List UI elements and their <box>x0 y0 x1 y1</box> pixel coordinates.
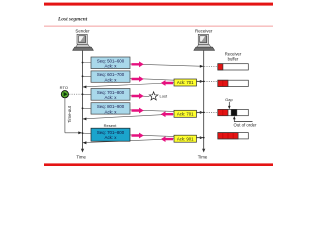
buffer1 <box>218 64 249 70</box>
svg-text:Seq: 601–700: Seq: 601–700 <box>97 72 125 77</box>
segment4 arrival arrowhead <box>200 111 204 114</box>
svg-text:Seq: 801–900: Seq: 801–900 <box>97 104 125 109</box>
ack box1 Ack 701 <box>174 79 197 86</box>
wire segment2 data line <box>83 76 204 81</box>
dotted connector to buffer3 <box>204 111 217 113</box>
bottom red bar <box>44 163 273 166</box>
svg-text:Sender: Sender <box>75 29 90 34</box>
wire ack1 line <box>83 81 204 87</box>
time-out bracket arrowhead <box>78 131 82 134</box>
junction dots on timelines <box>82 62 205 139</box>
receiver timeline arrowhead <box>202 149 205 153</box>
wire segment4 data line <box>83 108 204 112</box>
svg-text:Ack: x: Ack: x <box>105 95 118 100</box>
buffer2 <box>218 80 249 86</box>
svg-text:Ack: 701: Ack: 701 <box>177 80 194 85</box>
sender timeline <box>82 51 84 150</box>
out of order arrowhead <box>233 116 236 119</box>
svg-text:buffer: buffer <box>228 57 239 62</box>
svg-text:Ack: 701: Ack: 701 <box>177 112 194 117</box>
svg-text:Ack: x: Ack: x <box>105 64 118 69</box>
ack box2 pink arrow <box>161 111 173 117</box>
top red bar <box>44 3 273 6</box>
ack2 arrival arrowhead <box>83 118 87 121</box>
svg-text:Ack: x: Ack: x <box>105 78 118 83</box>
svg-text:Lost segment: Lost segment <box>57 17 88 23</box>
ack3 arrival arrowhead <box>83 141 87 144</box>
RTO dotted line to sender timeline <box>69 93 82 95</box>
segment2 arrival arrowhead <box>200 80 204 83</box>
svg-text:Ack: x: Ack: x <box>105 135 118 140</box>
segment box2 pink arrow <box>132 76 144 82</box>
ack box1 pink arrow <box>161 80 173 86</box>
ack box3 pink arrow <box>161 136 173 142</box>
wire ack3 line <box>83 138 204 143</box>
segment box3 pink arrow <box>132 93 144 99</box>
out of order arrow line <box>234 119 252 122</box>
lost star burst <box>149 92 158 100</box>
segment box4 Seq 801-900 <box>91 103 130 115</box>
ack box2 Ack 701 <box>174 110 197 117</box>
svg-text:Ack: x: Ack: x <box>105 109 118 114</box>
time-out bracket vertical line <box>64 98 66 133</box>
buffer4 <box>218 133 249 139</box>
RTO timer circle <box>61 91 68 98</box>
gap arrowhead <box>228 106 231 109</box>
svg-text:Gap: Gap <box>225 97 233 102</box>
resent segment box Seq 701-800 <box>91 128 130 141</box>
dotted connector to buffer2 <box>204 80 217 82</box>
svg-text:Time: Time <box>198 155 208 160</box>
dotted connector to buffer1 <box>204 65 217 67</box>
svg-text:Seq: 701–800: Seq: 701–800 <box>97 90 125 95</box>
segment box3 Seq 701-800 <box>91 89 130 101</box>
segment box1 pink arrow <box>132 61 144 67</box>
buffer3 <box>218 109 249 115</box>
segment1 arrival arrowhead <box>200 65 204 68</box>
receiver computer icon <box>194 34 215 50</box>
svg-text:Lost: Lost <box>160 94 168 99</box>
svg-text:Receiver: Receiver <box>195 29 213 34</box>
pink divider line <box>44 26 273 27</box>
resent arrival arrowhead <box>200 136 204 139</box>
segment box2 Seq 601-700 <box>91 71 130 83</box>
ack1 arrival arrowhead <box>83 86 87 89</box>
wire segment3 lost data line <box>83 94 150 96</box>
svg-text:Out of order: Out of order <box>234 122 257 127</box>
segment box4 pink arrow <box>132 108 144 114</box>
ack box3 Ack 901 <box>174 135 197 142</box>
time-out bracket horizontal arrow <box>65 132 80 134</box>
svg-text:RTO: RTO <box>60 85 68 90</box>
svg-text:Resent: Resent <box>104 123 118 128</box>
wire segment1 data line <box>83 63 204 67</box>
svg-text:Ack: 901: Ack: 901 <box>177 136 194 141</box>
wire ack2 line <box>83 112 204 119</box>
gap arrow <box>228 102 230 107</box>
receiver timeline <box>203 51 205 150</box>
sender computer icon <box>73 34 94 50</box>
segment box1 Seq 501-600 <box>91 57 130 69</box>
wire resent segment data line <box>83 133 204 137</box>
svg-text:Seq: 501–600: Seq: 501–600 <box>97 58 125 63</box>
svg-text:Time-out: Time-out <box>67 105 72 123</box>
svg-text:Time: Time <box>76 155 86 160</box>
sender timeline arrowhead <box>81 149 84 153</box>
resent box pink arrow <box>132 133 144 139</box>
